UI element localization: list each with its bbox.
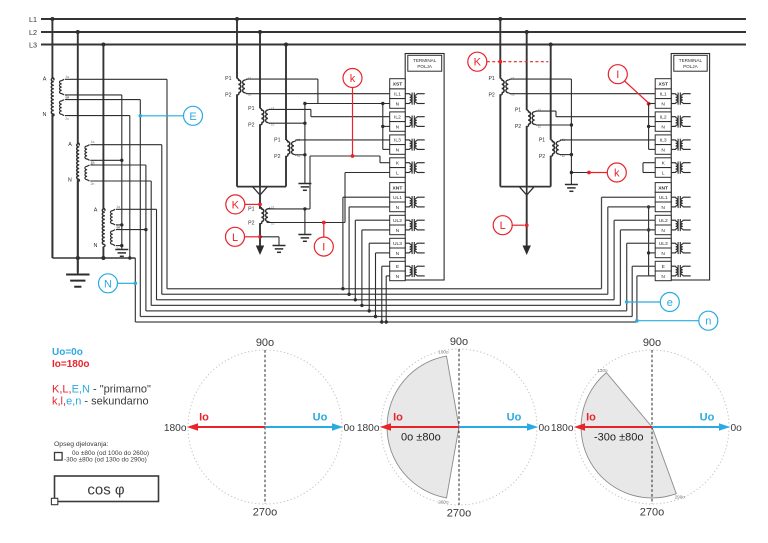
svg-text:260o: 260o <box>438 499 449 504</box>
wire CT1-s1 <box>246 79 318 103</box>
wire CT4-s2 to L row <box>267 173 390 223</box>
ground CT4-s1 <box>298 235 311 242</box>
svg-text:Io: Io <box>199 412 209 424</box>
svg-text:IL2: IL2 <box>660 115 667 121</box>
svg-text:0o ±80o: 0o ±80o <box>401 432 441 444</box>
circle K (left) <box>226 195 262 214</box>
circle n (secondary neutral) <box>635 311 718 330</box>
circle k (right) <box>587 163 626 182</box>
wire VT1-1a to bundle <box>65 79 167 288</box>
svg-text:L1: L1 <box>29 15 37 24</box>
wire CT7-s1 to IL3 <box>560 139 655 141</box>
svg-text:K,L,E,N - "primarno": K,L,E,N - "primarno" <box>52 384 151 396</box>
junction L1 tap VT1 <box>50 17 54 21</box>
wire VT2-2a to bundle <box>90 165 146 311</box>
wire i-common vertical <box>304 104 306 184</box>
svg-text:UL2: UL2 <box>393 218 402 224</box>
svg-text:N: N <box>396 251 400 257</box>
wire VT2-2n to bundle <box>90 181 151 305</box>
wire CT2-s1 to IL2 <box>269 109 389 116</box>
svg-text:1a: 1a <box>116 205 120 209</box>
svg-text:e: e <box>667 297 673 309</box>
legend Uo=0o <box>52 347 83 358</box>
svg-text:UL1: UL1 <box>393 195 402 201</box>
svg-text:IL3: IL3 <box>394 138 401 144</box>
svg-text:P2: P2 <box>225 93 231 99</box>
voltage transformer VT3 (phase L3, A-N) <box>93 45 120 259</box>
junction CT4-s1 ground tap <box>303 207 306 210</box>
ground s2-common right <box>565 185 578 192</box>
svg-text:L: L <box>662 170 665 176</box>
svg-text:N: N <box>661 274 665 280</box>
wire VT1-1n to n-common <box>65 94 122 96</box>
junction VT3-2n <box>120 244 123 247</box>
wire XNT stub 6 (left block) <box>376 253 390 317</box>
wire K row stub right <box>643 163 655 173</box>
circle L (left) <box>226 227 262 246</box>
wire VT3-2n to n-common <box>116 245 122 247</box>
svg-text:P1: P1 <box>539 137 545 143</box>
wire VT2-1a to bundle <box>90 145 162 295</box>
wire bus L2 <box>41 31 746 33</box>
voltage transformer VT2 (phase L2, A-N) <box>68 32 95 272</box>
current transformer CT5 (L1) <box>488 19 514 187</box>
wire bundle net 6 <box>162 207 655 294</box>
wire CT1-s2 to IL1 <box>246 93 389 95</box>
svg-text:L2: L2 <box>29 28 37 37</box>
svg-text:IL3: IL3 <box>660 138 667 144</box>
arrow down right <box>523 246 531 256</box>
circle I (right) <box>608 65 650 106</box>
svg-text:90o: 90o <box>256 337 274 349</box>
wire CT5-s2 to IL1 <box>510 93 656 95</box>
wire VT2-1n to n-common <box>90 159 122 161</box>
svg-text:s1: s1 <box>248 77 252 81</box>
junction L1 tap CT5 <box>498 17 502 21</box>
svg-text:N: N <box>661 101 665 107</box>
wire VT3-1a to bundle <box>116 209 157 299</box>
svg-text:P1: P1 <box>248 106 254 112</box>
wire n-common vertical <box>121 95 123 250</box>
wire XNT stub 7 (left block) <box>382 266 390 322</box>
legend sekundarno <box>52 396 149 408</box>
ground beside arrow left <box>273 246 286 253</box>
svg-text:P1: P1 <box>248 206 254 212</box>
svg-text:130o: 130o <box>597 368 608 373</box>
junction s2-common k <box>570 171 573 174</box>
circle e (secondary earth) <box>625 293 679 312</box>
legend range 2 <box>64 457 147 464</box>
svg-text:2a: 2a <box>65 95 69 99</box>
legend opseg title <box>54 441 109 448</box>
current transformer CT7 (L3) <box>539 45 565 187</box>
junction i-common top <box>303 102 306 105</box>
svg-text:K: K <box>474 57 482 69</box>
legend checkbox <box>55 453 63 461</box>
svg-text:270o: 270o <box>253 507 277 519</box>
wire CT6-s2 <box>536 124 571 126</box>
svg-text:P2: P2 <box>539 154 545 160</box>
circle k (left) <box>343 69 362 158</box>
svg-text:POLJA: POLJA <box>683 64 698 69</box>
svg-text:N: N <box>661 147 665 153</box>
junction VT1-2n on N bar <box>128 256 131 259</box>
junction L3 tap VT3 <box>101 43 105 47</box>
wire N rows common vertical (left block) <box>383 104 390 150</box>
svg-text:-30o ±80o (od 130o do 290o): -30o ±80o (od 130o do 290o) <box>64 457 147 464</box>
svg-text:290o: 290o <box>675 495 686 500</box>
wire XNT stub 5 (left block) <box>369 243 390 311</box>
svg-text:N: N <box>661 124 665 130</box>
svg-text:s1: s1 <box>511 77 515 81</box>
wire CT4-s1 ground drop <box>304 209 306 235</box>
bus label L3 <box>29 40 37 49</box>
svg-text:L: L <box>232 232 238 244</box>
junction VT3-2a <box>144 228 147 231</box>
junction VT2 N <box>76 256 80 260</box>
svg-text:K: K <box>232 199 240 211</box>
svg-text:IL2: IL2 <box>394 115 401 121</box>
svg-text:k: k <box>350 73 356 85</box>
wire XNT stub 3 (left block) <box>355 220 389 300</box>
legend range 1 <box>72 450 149 457</box>
relay box cos phi <box>51 476 158 505</box>
wire XNT stub 1 (left block) <box>343 197 390 289</box>
circle L (right) <box>493 216 528 235</box>
svg-text:1a: 1a <box>65 75 69 79</box>
junction CT6-s2 <box>570 123 573 126</box>
wire bundle net 3 <box>146 243 655 311</box>
junction VT3-1n <box>120 223 123 226</box>
svg-text:2a: 2a <box>91 161 95 165</box>
junction CT2-s2 <box>303 122 306 125</box>
wire VT2 N to ground <box>77 179 79 274</box>
svg-text:cos φ: cos φ <box>87 482 125 499</box>
svg-text:L3: L3 <box>29 40 37 49</box>
svg-text:UL1: UL1 <box>659 195 668 201</box>
svg-text:n: n <box>705 316 711 328</box>
svg-text:270o: 270o <box>640 507 664 519</box>
svg-text:N: N <box>396 274 400 280</box>
svg-text:P1: P1 <box>515 108 521 114</box>
circle E (primary earth) <box>139 106 203 125</box>
wire i-common to N row <box>305 103 390 105</box>
svg-text:P1: P1 <box>488 76 494 82</box>
junction CT7-s2 <box>570 153 573 156</box>
junction L2 tap VT2 <box>76 30 80 34</box>
wire N rows common (right block) <box>649 104 656 150</box>
svg-text:N: N <box>68 178 72 184</box>
svg-text:P2: P2 <box>488 93 494 99</box>
svg-text:P1: P1 <box>274 138 280 144</box>
voltage transformer VT1 (phase L1, A-N) <box>42 19 69 258</box>
svg-text:Io=180o: Io=180o <box>52 359 90 370</box>
svg-text:N: N <box>396 124 400 130</box>
circle N (primary neutral) <box>99 274 138 293</box>
svg-text:TERMINAL: TERMINAL <box>679 58 703 63</box>
wire bundle net 7 <box>167 197 655 289</box>
wire VT1-2a to E-vertical <box>65 100 140 317</box>
svg-text:2n: 2n <box>91 182 95 186</box>
junction VT2-1n <box>120 159 123 162</box>
svg-text:POLJA: POLJA <box>417 64 432 69</box>
svg-text:Uo: Uo <box>507 412 522 424</box>
svg-text:XNT: XNT <box>393 185 403 191</box>
wire k tap right <box>571 172 589 174</box>
svg-text:A: A <box>94 207 98 213</box>
current transformer CT2 (L2) <box>248 32 274 187</box>
current transformer CT1 (L1) <box>225 19 251 187</box>
svg-text:270o: 270o <box>447 508 471 520</box>
junction XNT stub 3 <box>354 298 357 301</box>
current transformer CT4 (neutral) <box>248 205 274 246</box>
junction XNT N row 3 right <box>647 251 650 254</box>
terminal block left (TERMINAL POLJA) <box>390 54 444 281</box>
svg-text:I: I <box>322 242 325 254</box>
current transformer CT6 (L2) <box>515 32 541 187</box>
svg-text:A: A <box>43 77 47 83</box>
wire CT merge bar right <box>500 186 550 188</box>
ground primary neutral (main) <box>66 275 89 287</box>
wire VT3-2a joins bundle <box>116 229 146 231</box>
wire CT3-s1 to IL3 <box>295 139 389 141</box>
phasor diagram 3 (-30o +/-80o) <box>551 337 742 519</box>
svg-text:TERMINAL: TERMINAL <box>413 58 437 63</box>
wire bundle net 1 <box>135 276 655 322</box>
wire bus L1 <box>41 18 746 20</box>
svg-text:N: N <box>42 112 46 118</box>
svg-text:P2: P2 <box>248 123 254 129</box>
junction L3 tap CT7 <box>549 43 553 47</box>
junction XNT stub 7 <box>380 320 383 323</box>
svg-text:90o: 90o <box>450 336 468 348</box>
funnel junction right <box>520 187 534 195</box>
svg-text:Io: Io <box>586 412 596 424</box>
svg-text:90o: 90o <box>643 337 661 349</box>
junction XNT stub 5 <box>368 309 371 312</box>
svg-text:E: E <box>189 111 196 123</box>
wire bus L3 <box>41 44 746 46</box>
wire XNT N rows common (right block) <box>649 207 656 276</box>
ground secondary n-common <box>115 250 128 257</box>
circle K (right) <box>468 52 549 71</box>
phasor diagram 2 (0o +/-80o) <box>357 336 550 520</box>
svg-text:N: N <box>661 205 665 211</box>
svg-text:L: L <box>500 220 506 232</box>
svg-text:2n: 2n <box>65 117 69 121</box>
svg-text:N: N <box>396 101 400 107</box>
bus label L2 <box>29 28 37 37</box>
svg-text:180o: 180o <box>357 423 380 434</box>
legend primarno <box>52 384 151 396</box>
svg-text:100o: 100o <box>438 350 449 355</box>
wire XNT stub 2 (left block) <box>349 207 390 294</box>
svg-text:Io: Io <box>393 412 403 424</box>
junction VT3 N <box>101 256 105 260</box>
circle I (left) <box>314 221 333 257</box>
svg-text:-30o ±80o: -30o ±80o <box>594 432 643 444</box>
junction XNT stub 2 <box>347 293 350 296</box>
svg-text:UL3: UL3 <box>659 241 668 247</box>
svg-text:0o: 0o <box>731 423 743 434</box>
wire CT4-s1 to K row <box>267 156 390 209</box>
wire to CT4 <box>259 195 261 209</box>
junction N row 2 right <box>647 125 650 128</box>
svg-text:XST: XST <box>658 82 668 88</box>
svg-text:P2: P2 <box>515 124 521 130</box>
wire CT2-s2 <box>269 122 305 124</box>
junction XNT stub 8 <box>385 320 388 323</box>
svg-text:N: N <box>396 205 400 211</box>
wire N net to bundle <box>134 258 136 322</box>
svg-text:Uo: Uo <box>313 412 328 424</box>
legend Io=180o <box>52 359 90 370</box>
svg-text:k,l,e,n - sekundarno: k,l,e,n - sekundarno <box>52 396 149 408</box>
wire CT merge bar left <box>237 186 286 188</box>
svg-text:N: N <box>661 228 665 234</box>
junction L3 tap CT3 <box>284 43 288 47</box>
svg-text:I: I <box>616 69 619 81</box>
svg-text:XNT: XNT <box>658 185 668 191</box>
svg-text:P2: P2 <box>274 154 280 160</box>
junction XNT stub 1 <box>341 287 344 290</box>
ground i-common left <box>298 184 311 191</box>
svg-text:Opseg djelovanja:: Opseg djelovanja: <box>54 441 109 448</box>
svg-text:XST: XST <box>393 82 403 88</box>
svg-text:N: N <box>396 147 400 153</box>
svg-text:N: N <box>104 278 112 290</box>
wire CT6-s1 to IL2 <box>536 111 655 117</box>
svg-text:UL3: UL3 <box>393 241 402 247</box>
wire s2-common vertical right <box>570 79 572 184</box>
svg-text:IL1: IL1 <box>394 92 401 98</box>
svg-text:Uo: Uo <box>700 412 715 424</box>
wire CT7-s2 <box>560 154 571 156</box>
wire XNT stub 4 (left block) <box>362 230 390 306</box>
wire bundle net 2 <box>140 266 655 316</box>
wire bundle net 5 <box>157 220 656 300</box>
svg-text:Uo=0o: Uo=0o <box>52 347 83 358</box>
svg-text:2a: 2a <box>116 225 120 229</box>
svg-text:P1: P1 <box>225 76 231 82</box>
junction N row 2 left <box>381 125 384 128</box>
junction L2 tap CT6 <box>525 30 529 34</box>
wire VT3-1n to n-common <box>116 224 122 226</box>
svg-text:0o: 0o <box>344 423 356 434</box>
wire VT1-2n down <box>65 116 130 258</box>
wire neutral down right <box>526 195 528 246</box>
junction XNT N row 2 right <box>647 228 650 231</box>
phasor diagram 1 (reference) <box>164 337 355 519</box>
svg-text:P2: P2 <box>248 221 254 227</box>
svg-text:180o: 180o <box>164 423 187 434</box>
junction XNT stub 6 <box>374 315 377 318</box>
svg-text:N: N <box>661 251 665 257</box>
junction XNT stub 4 <box>360 304 363 307</box>
junction CT3-s2 <box>303 153 306 156</box>
svg-text:A: A <box>68 142 72 148</box>
svg-text:L: L <box>396 170 399 176</box>
funnel junction left <box>253 187 267 195</box>
svg-text:IL1: IL1 <box>660 92 667 98</box>
wire CT5-s1 <box>510 78 572 80</box>
current transformer CT3 (L3) <box>274 45 300 187</box>
terminal block right (TERMINAL POLJA) <box>655 54 709 281</box>
wire XNT stub 8 (left block) <box>386 276 390 322</box>
junction XNT N row 1 right <box>647 205 650 208</box>
svg-text:180o: 180o <box>551 423 574 434</box>
svg-text:N: N <box>93 243 97 249</box>
svg-text:N: N <box>396 228 400 234</box>
junction N rows left <box>381 102 384 105</box>
svg-text:k: k <box>614 167 620 179</box>
svg-text:UL2: UL2 <box>659 218 668 224</box>
svg-text:0o: 0o <box>539 423 551 434</box>
junction L2 tap CT2 <box>258 30 262 34</box>
bus label L1 <box>29 15 37 24</box>
wire bundle net 4 <box>151 230 655 306</box>
wire CT3-s2 <box>295 154 305 156</box>
wire primary neutral bar <box>52 114 135 258</box>
wire L to local ground <box>260 237 279 246</box>
arrow down left <box>256 246 264 256</box>
junction L1 tap CT1 <box>235 17 239 21</box>
svg-text:1a: 1a <box>91 140 95 144</box>
